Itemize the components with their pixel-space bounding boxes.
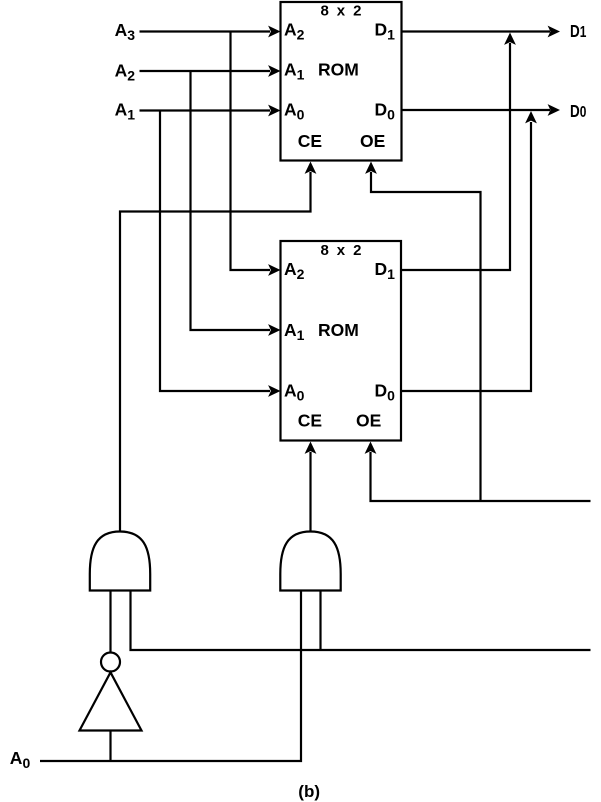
wire A2 branch to U2.A1 <box>191 71 281 336</box>
svg-text:OE: OE <box>356 410 381 430</box>
wire A3 branch to U2.A2 <box>231 32 281 276</box>
inverter X1 bubble <box>101 653 120 672</box>
wire OE branch to U1.OE <box>365 162 480 502</box>
wire U2.D1 joining D1 line <box>402 33 516 271</box>
wire A1 branch to U2.A0 <box>160 111 281 397</box>
wire U1.D0 to output D0 <box>402 104 561 116</box>
svg-text:8 x 2: 8 x 2 <box>320 3 363 20</box>
ROM U1 body <box>281 2 402 161</box>
svg-text:D1: D1 <box>570 22 587 41</box>
svg-text:ROM: ROM <box>318 60 359 80</box>
wire enable bus to G2 right input <box>319 591 321 650</box>
wire G1 output to U1.CE <box>120 162 316 533</box>
wire X1 output to G1 left input <box>109 591 111 653</box>
svg-text:CE: CE <box>298 410 322 430</box>
wire A1 to U1.A0 <box>140 105 281 117</box>
svg-text:D0: D0 <box>570 102 587 121</box>
inverter X1 triangle <box>80 672 142 730</box>
svg-text:OE: OE <box>360 131 385 151</box>
wire OE input (right edge) to U2.OE <box>365 442 591 502</box>
ROM U2 body <box>281 241 402 441</box>
wire U1.D1 to output D1 <box>402 26 561 38</box>
wire A3 to U1.A2 <box>140 26 281 38</box>
svg-text:CE: CE <box>298 131 322 151</box>
wire A0 branch to inverter X1 input <box>109 730 111 761</box>
svg-text:8 x 2: 8 x 2 <box>320 242 363 259</box>
wire enable bus (right edge) to G1 right input <box>131 591 591 650</box>
AND gate G2 <box>280 532 340 591</box>
AND gate G1 <box>90 532 150 591</box>
svg-text:ROM: ROM <box>318 320 359 340</box>
wire A2 to U1.A1 <box>140 65 281 77</box>
wire U2.D0 joining D0 line <box>402 111 537 391</box>
wire G2 output to U2.CE <box>305 442 317 533</box>
svg-text:(b): (b) <box>298 782 320 801</box>
wire A0 to G2 left input <box>40 591 301 761</box>
